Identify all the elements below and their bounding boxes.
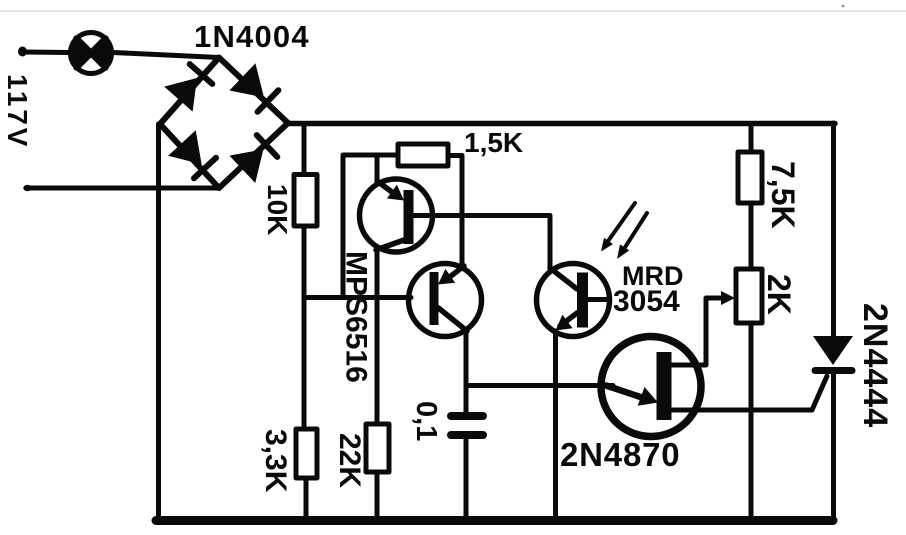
wire left rail xyxy=(156,124,161,521)
wire UJT emitter line xyxy=(466,383,613,388)
svg-text:117V: 117V xyxy=(2,74,33,149)
wire right rail upper xyxy=(831,123,836,337)
wire xyxy=(302,124,307,176)
wire UJT B2 to pot wiper xyxy=(671,291,735,365)
svg-text:2N4870: 2N4870 xyxy=(560,436,680,473)
bridge diode D1 xyxy=(160,58,219,125)
svg-text:0,1: 0,1 xyxy=(410,401,442,441)
resistor 22K xyxy=(366,424,389,472)
wire xyxy=(24,50,68,56)
light arrow 1 xyxy=(601,203,635,252)
svg-text:3054: 3054 xyxy=(613,285,680,318)
resistor 10K xyxy=(294,175,317,227)
svg-text:1N4004: 1N4004 xyxy=(194,19,310,54)
svg-text:2N4444: 2N4444 xyxy=(856,303,894,428)
transistor Q2 MPS6516 xyxy=(409,264,482,337)
wire top rail xyxy=(287,121,835,127)
bridge diode D4 xyxy=(219,123,288,188)
lamp xyxy=(70,33,111,74)
terminal T1 xyxy=(18,47,27,57)
svg-text:1,5K: 1,5K xyxy=(464,127,523,158)
bridge diode D2 xyxy=(219,58,288,124)
resistor 1,5K xyxy=(398,144,448,166)
wire xyxy=(553,331,558,521)
UJT 2N4870 xyxy=(601,337,701,437)
capacitor 0,1 xyxy=(451,416,483,435)
wire xyxy=(375,472,380,521)
wire xyxy=(304,478,309,521)
wire xyxy=(749,203,754,269)
wire xyxy=(375,155,380,181)
wire xyxy=(375,250,380,424)
phototransistor MRD3054 xyxy=(537,264,610,337)
svg-text:3,3K: 3,3K xyxy=(259,429,292,493)
light arrow 2 xyxy=(617,213,647,259)
resistor 3,3K xyxy=(296,429,317,478)
SCR 2N4444 xyxy=(813,336,853,371)
svg-text:2K: 2K xyxy=(761,274,797,315)
bridge diode D3 xyxy=(160,124,219,188)
svg-text:10K: 10K xyxy=(262,184,293,235)
svg-text:22K: 22K xyxy=(333,433,366,488)
wire bottom rail xyxy=(156,516,833,525)
wire UJT B1 to SCR gate xyxy=(671,376,827,410)
wire xyxy=(749,323,754,521)
wire right rail lower xyxy=(831,371,836,521)
wire xyxy=(343,155,398,297)
wire xyxy=(464,439,469,521)
potentiometer 2K xyxy=(736,269,762,323)
wire xyxy=(29,186,219,191)
wire xyxy=(464,334,469,412)
wire Q2 base line xyxy=(304,295,411,300)
wire xyxy=(448,156,462,266)
transistor Q1 MPS6516 xyxy=(360,179,433,252)
scan artifact hairline xyxy=(0,10,906,12)
svg-text:7,5K: 7,5K xyxy=(765,161,801,229)
resistor 7,5K xyxy=(738,152,762,203)
wire xyxy=(749,125,754,152)
wire xyxy=(114,53,220,58)
wire Q1 base xyxy=(412,216,550,268)
svg-text:MPS6516: MPS6516 xyxy=(340,251,373,383)
terminal T2 xyxy=(23,185,31,191)
wire xyxy=(302,226,307,429)
scan artifact dot xyxy=(842,5,845,8)
